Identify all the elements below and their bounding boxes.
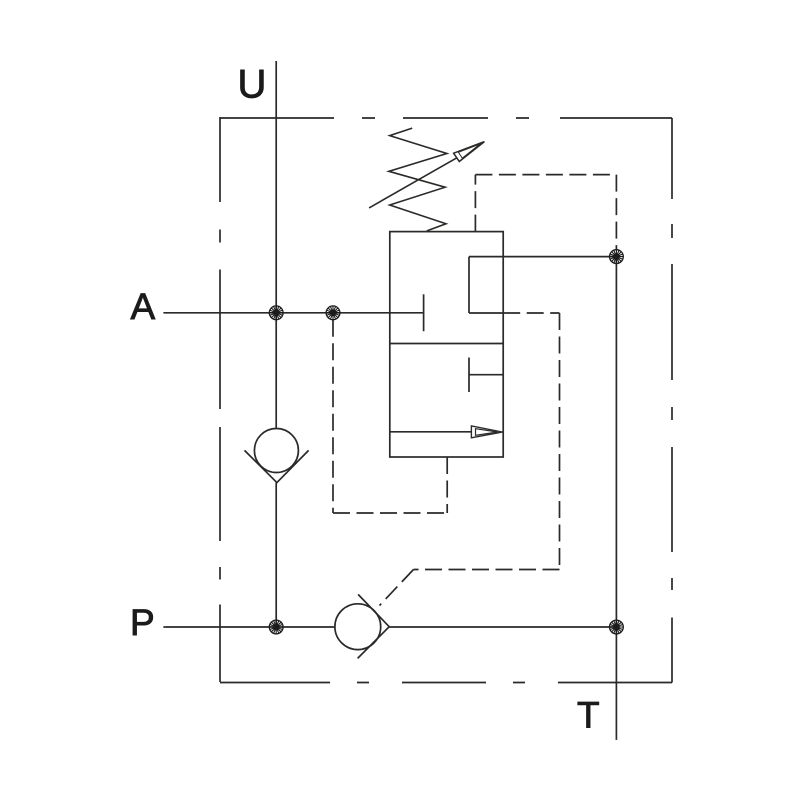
junction node on P line at U branch — [269, 620, 283, 634]
wire from check valve seat apex down to P node — [275, 483, 277, 627]
junction node on right bus (upper) — [610, 250, 624, 264]
adjustment arrowhead (outlined) — [454, 142, 485, 162]
pressure relief valve body rectangle — [390, 232, 503, 457]
pilot dashed line: lower chamber to right — [503, 312, 559, 314]
port P line right segment — [389, 626, 616, 628]
valve block enclosure top edge (phantom dashed) — [220, 117, 672, 119]
valve block enclosure bottom edge (phantom dashed) — [220, 682, 672, 684]
pilot dashed line: vertical run down at x=559.5 — [559, 313, 561, 570]
relief valve spring zigzag — [389, 128, 447, 231]
junction node P/T at right bus — [610, 620, 624, 634]
check valve CV1 poppet circle — [254, 429, 298, 473]
blocked port bar and stub in lower section — [469, 358, 503, 393]
adjustment arrow shaft — [369, 156, 459, 208]
pilot dashed line: bottom horizontal to x=447 — [333, 512, 447, 514]
port label T — [578, 702, 599, 727]
valve block enclosure right edge (phantom dashed) — [671, 118, 673, 683]
flow control valve CV2 seat V (apex on P line, arms extended) — [358, 594, 390, 658]
flow path arrow line in bottom section — [390, 431, 471, 433]
pilot dashed diagonal onto CV2 seat arm — [380, 570, 414, 606]
port T line (vertical) — [615, 627, 617, 740]
port P line left segment — [163, 626, 335, 628]
pilot dashed line: top horizontal run — [475, 174, 616, 176]
junction node 2 on A line (pilot branch) — [326, 306, 340, 320]
pilot dashed line: valve top to upper dashed run — [474, 175, 476, 232]
right bus line from upper node to P/T node — [615, 257, 617, 627]
check valve CV1 seat V — [245, 450, 309, 482]
pilot dashed line: up to valve bottom — [446, 457, 448, 513]
port A line (horizontal) — [163, 312, 423, 314]
valve block enclosure left edge (phantom dashed) — [219, 117, 221, 682]
port label A — [131, 294, 156, 319]
port U line (vertical) — [275, 61, 277, 429]
pilot dashed line: horizontal run to CV2 — [414, 569, 560, 571]
flow path arrowhead (outlined, pointing right) — [471, 426, 502, 438]
blocked A-port bar inside upper section — [423, 294, 425, 331]
pilot dashed line: node2 down — [332, 320, 334, 513]
valve body mid divider — [390, 343, 503, 345]
junction node on A line at U line — [269, 306, 283, 320]
port label P — [133, 610, 153, 635]
pilot tap solid line from valve chamber to right node — [469, 256, 616, 258]
flow control / check valve CV2 poppet circle — [335, 604, 381, 650]
pilot dashed line: down to right node — [615, 175, 617, 250]
upper pilot chamber C-shape — [469, 257, 503, 313]
port label U — [241, 70, 264, 98]
